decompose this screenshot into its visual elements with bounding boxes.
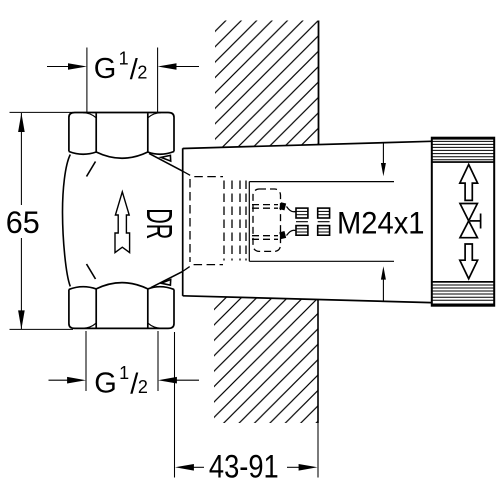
wall upper face line bbox=[318, 21, 320, 145]
hex nut bottom bbox=[69, 283, 174, 329]
spindle thread block A1 bbox=[296, 208, 308, 218]
spindle middle line left bbox=[296, 221, 308, 223]
M24 dimension arrow bottom bbox=[381, 266, 386, 300]
spindle thread block B2 bbox=[318, 226, 330, 236]
svg-text:65: 65 bbox=[6, 204, 40, 240]
thread cylinder lines bbox=[249, 182, 394, 262]
symbol valve bbox=[460, 204, 481, 238]
seal upper bbox=[279, 202, 286, 210]
hidden cartridge (dashed) bbox=[252, 189, 281, 251]
bottom knurl band bbox=[432, 281, 494, 283]
wall lower face line bbox=[317, 300, 319, 423]
wall lower hatching bbox=[214, 297, 319, 424]
dimension 65 bbox=[10, 112, 74, 329]
seal lower bbox=[279, 231, 286, 239]
valve body bbox=[62, 153, 182, 287]
spindle thread block A2 bbox=[318, 208, 330, 218]
svg-text:M24x1: M24x1 bbox=[337, 204, 425, 240]
svg-text:G: G bbox=[94, 53, 117, 85]
svg-text:G: G bbox=[94, 367, 117, 399]
spindle thread block B1 bbox=[296, 226, 308, 236]
wall upper hatching bbox=[215, 21, 319, 149]
hex nut top bbox=[69, 113, 174, 159]
svg-text:2: 2 bbox=[137, 63, 147, 83]
hidden thread outline (dashed) bbox=[183, 171, 246, 271]
protection cap body bbox=[432, 137, 494, 306]
symbol up arrow bbox=[460, 165, 478, 201]
leader squiggles bbox=[287, 207, 296, 212]
top knurl band bbox=[432, 137, 494, 140]
svg-text:1: 1 bbox=[119, 363, 129, 383]
dimension G1/2 top bbox=[47, 48, 199, 113]
flow arrow bbox=[115, 192, 130, 253]
svg-text:43-91: 43-91 bbox=[209, 448, 279, 484]
symbol down arrow bbox=[460, 244, 478, 279]
rough-in cap outline bbox=[183, 141, 431, 302]
spindle middle line right bbox=[318, 221, 330, 223]
svg-text:1: 1 bbox=[119, 48, 129, 68]
svg-text:DR: DR bbox=[138, 208, 178, 239]
svg-text:2: 2 bbox=[138, 377, 148, 397]
dimension G1/2 bottom bbox=[49, 331, 200, 391]
M24 dimension arrow top bbox=[381, 144, 386, 177]
dimension 43-91 bbox=[175, 332, 319, 478]
